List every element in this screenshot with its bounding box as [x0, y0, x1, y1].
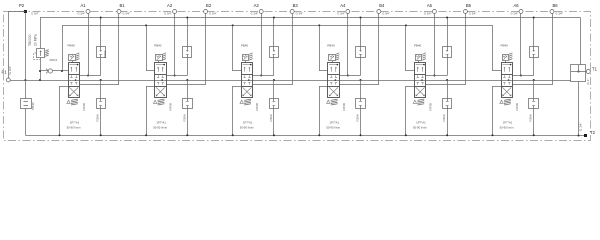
valve position 3 crossed arrows section 6 — [502, 87, 511, 96]
svg-text:MSC1: MSC1 — [50, 58, 58, 62]
node A1 junction — [87, 75, 89, 77]
wire P2 line to tank rail — [25, 109, 27, 136]
node bottom rail junction b section 3 — [273, 134, 275, 136]
port B4 — [377, 10, 381, 14]
open-center orifice box lower section 5 — [443, 99, 452, 109]
wire B-side stub section 6 — [512, 84, 552, 86]
valve actuator lever and spring section 3 — [240, 100, 243, 103]
svg-text:B5: B5 — [466, 3, 472, 8]
wire feed riser section1 — [62, 25, 64, 71]
node bottom rail junction a section 2 — [145, 134, 147, 136]
anti-shock valve box upper section 4 — [356, 47, 366, 58]
wire B1 port line — [118, 14, 120, 85]
node bottom rail junction a section 5 — [405, 134, 407, 136]
anti-shock valve box upper section 2 — [183, 47, 192, 58]
wire A1 port line — [88, 14, 90, 76]
port A2 — [173, 10, 177, 14]
node A5 junction — [433, 75, 435, 77]
wire A-side stub section 2 — [166, 75, 187, 77]
svg-text:50-90 l/min: 50-90 l/min — [240, 125, 254, 129]
valve actuator lever and spring section 2 — [153, 100, 156, 103]
svg-text:1P7*A1: 1P7*A1 — [70, 120, 80, 124]
wire P2 to P1 drop — [8, 11, 25, 13]
wire tank stub section 1 — [60, 86, 69, 88]
wire feed drop section 4 — [318, 24, 320, 26]
svg-text:G 3/4″: G 3/4″ — [555, 11, 563, 15]
open-center orifice box lower section 4 — [356, 99, 366, 109]
wire feed drop section 2 — [145, 24, 147, 26]
node tank rail junction section 5 — [446, 17, 448, 19]
port T2 — [584, 134, 587, 137]
anti-shock valve box upper section 1 — [97, 47, 106, 58]
wire open-center drop section 5 — [446, 79, 448, 81]
valve actuator lever and spring section 4 — [327, 100, 330, 103]
svg-text:G 3/4″: G 3/4″ — [164, 11, 172, 15]
svg-text:G 3/4″: G 3/4″ — [382, 11, 390, 15]
wire tank stub section 2 — [146, 86, 155, 88]
node bottom rail junction b section 1 — [100, 134, 102, 136]
node bottom rail junction b section 6 — [533, 134, 535, 136]
wire open-center drop section 6 — [533, 79, 535, 81]
valve actuator lever and spring section 6 — [500, 100, 503, 103]
wire feed drop section 3 — [232, 24, 234, 26]
svg-text:RP30: RP30 — [82, 103, 86, 111]
wire outlet box to bottom rail — [578, 82, 580, 136]
wire P1 inlet line — [10, 80, 59, 82]
node outlet junction — [578, 71, 580, 73]
anti-shock valve box upper section 6 — [530, 47, 539, 58]
wire tank stub section 6 — [493, 86, 502, 88]
node check to feed riser — [61, 70, 63, 72]
svg-text:B2: B2 — [206, 3, 212, 8]
anti-shock valve box upper section 3 — [270, 47, 279, 58]
svg-text:RP30: RP30 — [428, 103, 432, 111]
svg-text:1P7*A1: 1P7*A1 — [330, 120, 340, 124]
svg-text:RP30: RP30 — [169, 103, 173, 111]
svg-text:G 3/4″: G 3/4″ — [209, 11, 217, 15]
svg-text:RP30: RP30 — [515, 103, 519, 111]
port A4 — [346, 10, 350, 14]
svg-text:50-90 l/min: 50-90 l/min — [413, 125, 427, 129]
wire A-side stub section 1 — [79, 75, 100, 77]
node tank rail junction section 4 — [360, 17, 362, 19]
svg-text:P20A: P20A — [529, 113, 533, 121]
port P2 — [24, 10, 27, 13]
wire bottom tank rail — [25, 135, 585, 137]
wire A6 port line — [520, 14, 522, 76]
wire B-side stub section 4 — [339, 84, 379, 86]
port B2 — [204, 10, 208, 14]
svg-text:50-90 l/min: 50-90 l/min — [326, 125, 340, 129]
svg-text:T1: T1 — [592, 67, 598, 72]
wire B-side stub section 2 — [166, 84, 206, 86]
directional valve spool section 2 — [155, 63, 167, 98]
wire B-side stub section 3 — [253, 84, 293, 86]
svg-text:P20A: P20A — [103, 50, 107, 58]
wire A-side stub section 5 — [426, 75, 447, 77]
wire open-center drop section 1 — [100, 79, 102, 81]
svg-text:G 3/4″: G 3/4″ — [251, 11, 259, 15]
valve position 1 arrows section 1 — [69, 64, 78, 66]
svg-text:1P7*A1: 1P7*A1 — [243, 120, 253, 124]
node tank rail junction section 1 — [100, 17, 102, 19]
wire outlet to T1 — [571, 71, 586, 73]
open-center orifice box lower section 6 — [529, 99, 539, 109]
wire orifice to bottom rail section 4 — [360, 108, 362, 135]
valve position 2 ticks section 1 — [71, 75, 73, 77]
wire open-center rail — [60, 80, 572, 82]
port B3 — [290, 10, 294, 14]
node inlet junction 1 — [24, 79, 26, 81]
node bottom rail junction a section 4 — [318, 134, 320, 136]
open-center orifice box lower section 3 — [270, 99, 279, 109]
svg-text:B3: B3 — [293, 3, 299, 8]
node bottom rail junction b section 4 — [360, 134, 362, 136]
wire B4 port line — [378, 14, 380, 85]
svg-text:PB40: PB40 — [327, 43, 335, 47]
svg-text:A3: A3 — [254, 3, 260, 8]
valve position 3 crossed arrows section 5 — [416, 87, 425, 96]
svg-text:1P7*A1: 1P7*A1 — [416, 120, 426, 124]
outlet check box — [571, 65, 586, 82]
svg-text:G 3/4″: G 3/4″ — [31, 11, 39, 15]
directional valve spool section 1 — [69, 63, 80, 98]
svg-text:G 3/4″: G 3/4″ — [469, 11, 477, 15]
wire A-side stub section 3 — [253, 75, 274, 77]
svg-text:P2: P2 — [19, 3, 25, 8]
svg-text:PB40: PB40 — [414, 43, 422, 47]
anti-shock valve box upper section 5 — [443, 47, 452, 58]
node relief to check line — [39, 70, 41, 72]
wire open-center drop section 3 — [273, 79, 275, 81]
svg-text:50-90 l/min: 50-90 l/min — [153, 125, 167, 129]
node bottom rail junction a section 3 — [232, 134, 234, 136]
svg-text:P1: P1 — [1, 70, 7, 75]
svg-text:G 3/4″: G 3/4″ — [77, 11, 85, 15]
port P1 — [6, 78, 10, 82]
wire tank rail (top) — [40, 17, 581, 19]
node A3 junction — [260, 75, 262, 77]
port A3 — [259, 10, 263, 14]
valve position 2 ticks section 5 — [417, 75, 419, 77]
wire P2 drop line — [25, 13, 27, 98]
relief valve T80000 20 MPa — [37, 49, 45, 58]
valve position 3 crossed arrows section 1 — [69, 87, 78, 96]
svg-text:1P7*A1: 1P7*A1 — [156, 120, 166, 124]
wire orifice to bottom rail section 5 — [447, 108, 449, 135]
svg-text:A4: A4 — [340, 3, 346, 8]
orifice plug PB40 on P2 line — [21, 99, 32, 109]
valve position 1 arrows section 2 — [156, 64, 165, 66]
svg-text:P20A: P20A — [182, 113, 186, 121]
svg-text:G 3/4″: G 3/4″ — [8, 65, 12, 74]
svg-text:50-90 l/min: 50-90 l/min — [67, 125, 81, 129]
wire feed drop section 6 — [492, 25, 494, 71]
port A6 — [519, 10, 523, 14]
node inlet junction 2 — [39, 79, 41, 81]
wire tank stub section 3 — [233, 86, 242, 88]
svg-text:A6: A6 — [513, 3, 519, 8]
node A6 junction — [520, 75, 522, 77]
wire tank rail to outlet box — [580, 18, 582, 66]
relief pilot line (dashed) — [34, 53, 40, 60]
svg-text:G 3/4″: G 3/4″ — [337, 11, 345, 15]
svg-text:PB40: PB40 — [501, 43, 509, 47]
valve position 3 crossed arrows section 2 — [156, 87, 165, 96]
svg-text:G 3/4″: G 3/4″ — [510, 11, 518, 15]
valve position 2 ticks section 4 — [331, 75, 333, 77]
wire tank stub section 5 — [406, 86, 415, 88]
wire orifice to bottom rail section 1 — [100, 108, 102, 135]
svg-text:20 MPa: 20 MPa — [33, 34, 37, 46]
wire A2 port line — [174, 14, 176, 76]
port T1 — [586, 70, 590, 74]
node A2 junction — [174, 75, 176, 77]
wire open-center drop section 4 — [360, 79, 362, 81]
svg-text:P20A: P20A — [356, 113, 360, 121]
node tank rail junction section 3 — [273, 17, 275, 19]
svg-text:P20A: P20A — [96, 113, 100, 121]
node bottom rail junction b section 5 — [446, 134, 448, 136]
svg-text:PB40: PB40 — [241, 43, 249, 47]
svg-text:T80000: T80000 — [28, 34, 32, 46]
valve actuator lever and spring section 1 — [67, 100, 70, 103]
svg-text:B6: B6 — [552, 3, 558, 8]
svg-text:RP30: RP30 — [255, 103, 259, 111]
valve position 2 ticks section 6 — [504, 75, 506, 77]
svg-text:G 3/4″: G 3/4″ — [424, 11, 432, 15]
svg-text:G 3/4″: G 3/4″ — [579, 122, 583, 131]
valve position 2 ticks section 3 — [244, 75, 246, 77]
svg-text:PB40: PB40 — [154, 43, 162, 47]
wire open-center drop section 2 — [186, 79, 188, 81]
directional valve spool section 5 — [415, 63, 426, 98]
svg-text:P20A: P20A — [442, 113, 446, 121]
valve position 1 arrows section 5 — [416, 64, 425, 66]
check valve MSC1 — [40, 70, 48, 72]
wire B-side stub section 1 — [79, 84, 119, 86]
wire B2 port line — [205, 14, 207, 85]
valve position 3 crossed arrows section 4 — [329, 87, 338, 96]
node bottom rail junction a section 6 — [492, 134, 494, 136]
directional valve spool section 4 — [328, 63, 340, 98]
node outlet bottom junction — [578, 135, 580, 137]
svg-text:B4: B4 — [379, 3, 385, 8]
svg-text:A5: A5 — [427, 3, 433, 8]
wire A-side stub section 6 — [512, 75, 533, 77]
open-center orifice box lower section 2 — [183, 99, 193, 109]
port A1 — [86, 10, 90, 14]
directional valve spool section 6 — [502, 63, 513, 98]
wire A-side stub section 4 — [339, 75, 360, 77]
port B5 — [463, 10, 467, 14]
valve position 1 arrows section 6 — [502, 64, 511, 66]
wire A3 port line — [261, 14, 263, 76]
valve position 2 ticks section 2 — [158, 75, 160, 77]
svg-text:PB40: PB40 — [68, 43, 76, 47]
svg-text:A2: A2 — [167, 3, 173, 8]
port B1 — [117, 10, 121, 14]
svg-text:G 1″: G 1″ — [586, 78, 590, 85]
wire B5 port line — [465, 14, 467, 85]
svg-text:B1: B1 — [119, 3, 125, 8]
svg-text:G 3/4″: G 3/4″ — [122, 11, 130, 15]
valve actuator lever and spring section 5 — [413, 100, 416, 103]
valve position 3 crossed arrows section 3 — [243, 87, 252, 96]
node tank rail junction section 2 — [186, 17, 188, 19]
wire B-side stub section 5 — [426, 84, 466, 86]
wire relief valve riser — [40, 18, 42, 49]
node tank rail junction section 6 — [533, 17, 535, 19]
wire A5 port line — [434, 14, 436, 76]
valve position 1 arrows section 4 — [329, 64, 338, 66]
wire A4 port line — [347, 14, 349, 76]
wire feed drop section 5 — [405, 24, 407, 26]
wire parallel feed rail — [62, 25, 493, 27]
node bottom rail junction a section 1 — [59, 134, 61, 136]
node bottom rail junction b section 2 — [186, 134, 188, 136]
port B6 — [550, 10, 554, 14]
enclosure boundary (valve block outline, chain line) — [4, 12, 591, 141]
directional valve spool section 3 — [242, 63, 253, 98]
wire tank stub section 4 — [319, 86, 328, 88]
wire B6 port line — [552, 14, 554, 85]
wire B3 port line — [292, 14, 294, 85]
svg-text:PB40: PB40 — [31, 102, 35, 110]
wire orifice to bottom rail section 2 — [187, 108, 189, 135]
wire orifice to bottom rail section 3 — [273, 108, 275, 135]
svg-text:50-90 l/min: 50-90 l/min — [500, 125, 514, 129]
svg-text:1P7*A1: 1P7*A1 — [503, 120, 513, 124]
svg-text:A1: A1 — [80, 3, 86, 8]
svg-text:P20A: P20A — [269, 113, 273, 121]
node A4 junction — [347, 75, 349, 77]
port A5 — [432, 10, 436, 14]
svg-text:T2: T2 — [590, 130, 596, 135]
wire orifice to bottom rail section 6 — [533, 108, 535, 135]
open-center orifice box lower section 1 — [97, 99, 106, 109]
svg-text:RP30: RP30 — [342, 103, 346, 111]
svg-text:G 3/4″: G 3/4″ — [296, 11, 304, 15]
valve position 1 arrows section 3 — [243, 64, 252, 66]
